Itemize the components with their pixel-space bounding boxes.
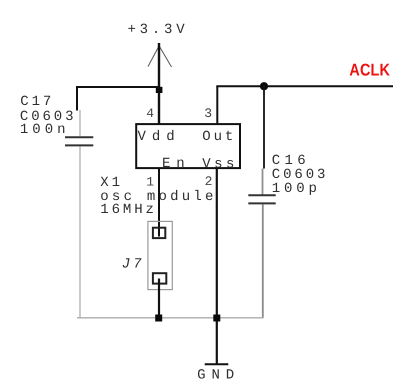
wire J7 down to GND rail — [158, 279, 160, 319]
node junction at power — [156, 87, 163, 93]
node junction Vss/GND rail — [213, 315, 220, 322]
power arrow symbol — [148, 46, 172, 67]
svg-text:1: 1 — [146, 174, 154, 189]
wire vertical down to C17 — [76, 86, 78, 111]
wire ACLK horizontal — [216, 85, 393, 87]
wire +3.3V vertical to Vdd pin 4 — [158, 43, 160, 124]
svg-text:+3.3V: +3.3V — [128, 22, 188, 38]
svg-text:J7: J7 — [122, 256, 145, 272]
wire Vss pin 2 down to GND — [216, 168, 218, 364]
capacitor C17 — [65, 110, 93, 318]
wire En pin 1 down to J7 — [158, 168, 160, 237]
node junction ACLK/C16 — [260, 82, 268, 90]
wire horizontal to C17 — [77, 86, 159, 88]
svg-text:C17: C17 — [20, 94, 54, 110]
ground symbol — [205, 363, 229, 365]
svg-text:Vss: Vss — [202, 156, 237, 172]
svg-text:2: 2 — [205, 174, 213, 189]
svg-text:GND: GND — [197, 368, 237, 384]
svg-text:100p: 100p — [272, 181, 320, 197]
svg-text:100n: 100n — [20, 122, 69, 138]
svg-text:16MHz: 16MHz — [100, 202, 157, 218]
wire GND rail horizontal — [77, 317, 264, 319]
wire Out pin 3 up — [216, 86, 218, 124]
jumper J7 — [148, 221, 172, 289]
svg-text:Vdd: Vdd — [138, 129, 178, 145]
svg-text:3: 3 — [204, 106, 212, 121]
wire junction down to C16 — [263, 86, 265, 169]
svg-text:ACLK: ACLK — [349, 61, 390, 80]
svg-text:Out: Out — [202, 129, 236, 145]
oscillator module X1 box — [136, 124, 240, 168]
node junction J7/GND rail — [155, 315, 162, 322]
svg-text:4: 4 — [146, 106, 154, 121]
capacitor C16 — [248, 169, 275, 319]
